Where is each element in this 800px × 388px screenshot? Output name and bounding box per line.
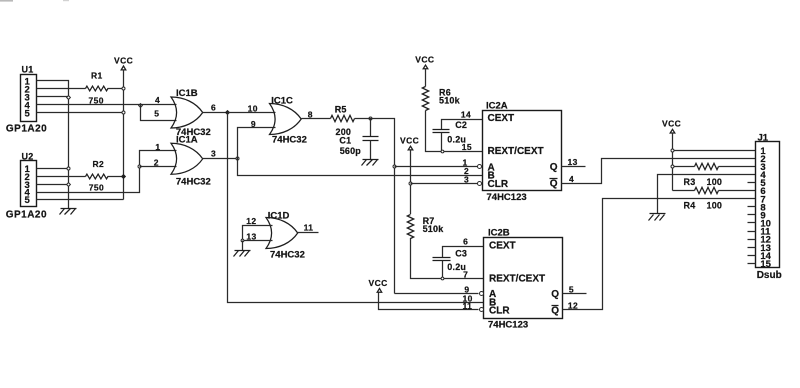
wire IC1D output 11 stub — [298, 232, 319, 234]
svg-text:Q: Q — [551, 289, 559, 300]
VCC symbol (J1) — [662, 119, 681, 133]
wire IC2A Qbar output 4 to J1 pin2 — [562, 159, 756, 184]
svg-text:1: 1 — [155, 142, 160, 152]
svg-text:R1: R1 — [91, 70, 103, 80]
svg-text:C2: C2 — [455, 120, 467, 130]
VCC symbol (CLR/R7 rail) — [400, 136, 419, 150]
wire J1 pin13 stub — [748, 247, 756, 249]
svg-text:12: 12 — [568, 301, 578, 311]
resistor R1 750 — [37, 70, 124, 105]
svg-text:4: 4 — [155, 95, 160, 105]
node R1/VCC junction — [122, 87, 125, 90]
svg-text:VCC: VCC — [662, 119, 681, 129]
wire J1 pin4 to ground — [658, 175, 756, 214]
svg-text:14: 14 — [461, 110, 471, 120]
wire IC1C input 10 from bus — [228, 112, 276, 114]
svg-text:5: 5 — [25, 195, 31, 206]
wire VCC rail down through R7 to IC2B pin7 — [411, 150, 484, 279]
wire U1 pin1 to ground bus — [37, 81, 69, 209]
svg-text:R4: R4 — [684, 201, 696, 211]
wire J1 pin8 stub — [748, 206, 756, 208]
svg-text:8: 8 — [308, 109, 313, 119]
GATES-SECTION — [154, 88, 484, 302]
svg-text:C3: C3 — [455, 248, 467, 258]
svg-text:GP1A20: GP1A20 — [6, 210, 47, 221]
svg-text:IC2B: IC2B — [488, 228, 510, 239]
VCC symbol (R6) — [415, 54, 434, 68]
wire IC1B output 6 — [203, 112, 228, 114]
VCC symbol (left rail) — [114, 56, 133, 70]
svg-text:750: 750 — [89, 95, 104, 105]
ground (left bus) — [60, 209, 77, 215]
wire IC1C output 8 to R5 — [302, 118, 331, 120]
svg-text:R5: R5 — [335, 105, 347, 115]
wire VCC rail down to R4 row — [672, 133, 674, 191]
wire IC1D input bracket — [243, 226, 273, 241]
svg-text:REXT/CEXT: REXT/CEXT — [489, 273, 545, 284]
resistor R4 100 to J1 pin6 — [673, 187, 756, 210]
resistor R7 510k — [407, 215, 444, 239]
svg-text:U2: U2 — [22, 151, 34, 161]
node IC1B.4 branch junction — [139, 104, 143, 108]
svg-text:510k: 510k — [423, 224, 445, 234]
svg-text:VCC: VCC — [400, 136, 419, 146]
wire U2 pin1 to bus — [37, 168, 69, 170]
svg-text:VCC: VCC — [114, 56, 133, 66]
svg-text:74HC123: 74HC123 — [488, 320, 528, 331]
svg-text:IC2A: IC2A — [486, 101, 508, 112]
or-gate IC1C (74HC32) — [248, 95, 307, 145]
svg-text:Q: Q — [550, 162, 558, 173]
pin bubble IC2B CLR — [480, 308, 484, 312]
resistor R5 200 — [331, 105, 370, 138]
node C2/pin15 junction — [441, 150, 444, 153]
capacitor C1 560p — [339, 119, 378, 160]
wire J1 pin15 stub — [748, 263, 756, 265]
VCC symbol (IC2B CLR) — [369, 278, 388, 292]
wire branch to IC1A input 2 — [140, 166, 177, 168]
svg-text:CEXT: CEXT — [489, 241, 516, 252]
connector U2 (GP1A20) — [6, 151, 47, 220]
wire to IC2B input A — [395, 293, 479, 295]
svg-text:5: 5 — [154, 109, 159, 119]
wire IC1A.3 up to IC1C input 9 — [238, 128, 276, 159]
ground (IC1D inputs) — [234, 251, 251, 257]
svg-text:5: 5 — [569, 284, 574, 294]
ground (J1 pin4) — [649, 214, 666, 221]
svg-text:100: 100 — [707, 201, 723, 211]
node R5/C1 junction — [369, 117, 372, 120]
wire VCC to IC2B CLR — [379, 293, 479, 310]
IC2A-SECTION — [461, 101, 756, 203]
svg-text:J1: J1 — [758, 132, 769, 143]
pin bubble IC2B A — [480, 292, 484, 296]
or-gate IC1D (74HC32) — [246, 211, 305, 261]
wire IC2B Q output 5 stub — [563, 293, 587, 295]
pin bubble IC2A CLR — [478, 182, 482, 186]
wire IC1A output 3 — [203, 158, 238, 160]
wire J1 pin10 stub — [748, 222, 756, 224]
svg-text:100: 100 — [707, 177, 723, 187]
wire U2 pin4 up to IC1A inputs — [37, 151, 177, 193]
svg-text:74HC123: 74HC123 — [487, 192, 527, 203]
node U2.3 bus diamond — [67, 183, 71, 187]
monostable IC2A (74HC123) — [483, 101, 562, 203]
wire U2 pin5 to VCC rail — [37, 199, 124, 201]
node U1.5/VCC junction — [122, 111, 125, 114]
svg-text:U1: U1 — [22, 65, 34, 75]
svg-text:12: 12 — [246, 216, 256, 226]
wire IC2B Qbar output 12 to J1 pin7 — [563, 199, 756, 310]
svg-text:R3: R3 — [684, 177, 696, 187]
MID-SECTION — [331, 54, 484, 309]
svg-text:GP1A20: GP1A20 — [6, 123, 47, 134]
wire U2 pin3 to bus — [37, 184, 69, 186]
LEFT-SECTION — [6, 56, 177, 221]
svg-text:13: 13 — [568, 157, 578, 167]
svg-text:CEXT: CEXT — [488, 113, 515, 124]
svg-text:6: 6 — [211, 103, 216, 113]
wire VCC left rail — [123, 70, 125, 200]
node VCC/J1.1 junction — [671, 149, 674, 152]
wire IC1D inputs to ground — [242, 241, 244, 251]
svg-text:R2: R2 — [93, 159, 105, 169]
svg-text:IC1D: IC1D — [268, 211, 290, 222]
svg-text:IC1B: IC1B — [176, 88, 198, 99]
svg-text:750: 750 — [89, 182, 104, 192]
wire U1 pin3 to bus — [37, 96, 69, 98]
wire J1 pin11 stub — [748, 231, 756, 233]
ground (C1) — [362, 160, 379, 166]
svg-text:Dsub: Dsub — [757, 270, 782, 281]
wire U1 pin5 to VCC rail — [37, 112, 124, 114]
node IC1D input ground junction — [241, 239, 244, 242]
wire IC1A.3 down to IC2A B — [238, 159, 483, 176]
svg-text:510k: 510k — [439, 96, 461, 106]
svg-text:Q: Q — [551, 305, 559, 316]
svg-text:4: 4 — [569, 174, 574, 184]
node VCC/R3 junction — [671, 165, 674, 168]
svg-text:9: 9 — [251, 119, 256, 129]
node U1.3 bus diamond — [67, 96, 71, 100]
svg-text:CLR: CLR — [488, 179, 509, 190]
wire R6 to IC2A pin 15 — [426, 111, 483, 152]
wire J1 pin5 stub — [748, 182, 756, 184]
wire VCC to J1 pin1 — [673, 150, 756, 152]
or-gate IC1A (74HC32) — [154, 135, 211, 188]
svg-text:560p: 560p — [340, 146, 362, 156]
wire IC2A Q output 13 stub — [562, 166, 586, 168]
capacitor C3 0.2u — [433, 247, 484, 279]
svg-text:5: 5 — [25, 109, 31, 120]
node U2.1 bus junction — [67, 167, 70, 170]
svg-text:15: 15 — [760, 259, 771, 270]
wire R5 node to A-line vertical — [370, 119, 395, 294]
svg-text:Q: Q — [550, 178, 558, 189]
wire VCC to IC2A CLR — [411, 183, 478, 185]
node VCC/CLR junction — [409, 182, 412, 185]
connector J1 (Dsub) — [756, 132, 782, 281]
svg-text:74HC32: 74HC32 — [270, 250, 305, 261]
svg-text:VCC: VCC — [369, 278, 388, 288]
wire J1 pin14 stub — [748, 255, 756, 257]
IC2B-SECTION — [463, 199, 756, 331]
monostable IC2B (74HC123) — [484, 228, 563, 331]
svg-text:2: 2 — [154, 158, 159, 168]
svg-text:7: 7 — [463, 269, 468, 279]
connector U1 (GP1A20) — [6, 65, 47, 135]
wire branch down to IC1B input 5 — [141, 105, 177, 121]
svg-text:CLR: CLR — [489, 306, 510, 317]
RIGHT-SECTION — [649, 119, 782, 281]
resistor R2 750 — [37, 159, 124, 192]
resistor R3 100 to J1 pin3 — [673, 163, 756, 187]
svg-text:VCC: VCC — [415, 54, 434, 64]
svg-text:10: 10 — [248, 103, 258, 113]
svg-text:REXT/CEXT: REXT/CEXT — [488, 146, 544, 157]
node IC1B.6 junction — [226, 111, 230, 115]
wire U1 pin4 to IC1B input 4 — [37, 104, 177, 106]
svg-text:15: 15 — [462, 142, 472, 152]
wire J1 pin9 stub — [748, 214, 756, 216]
resistor R6 510k — [422, 69, 460, 111]
svg-text:74HC32: 74HC32 — [176, 176, 211, 187]
svg-text:11: 11 — [463, 301, 473, 311]
svg-text:3: 3 — [464, 174, 469, 184]
node R2/VCC junction — [122, 175, 126, 179]
pin bubble IC2A A — [478, 165, 482, 169]
svg-text:IC1C: IC1C — [271, 95, 293, 106]
node IC1A.3 junction — [236, 157, 239, 160]
node C3/pin7 junction — [441, 277, 444, 280]
svg-text:74HC32: 74HC32 — [272, 135, 307, 146]
node A-line/IC2A.A junction — [393, 165, 396, 168]
capacitor C2 0.2u — [433, 120, 483, 152]
wire to IC2A input A — [395, 166, 478, 168]
or-gate IC1B (74HC32) — [154, 88, 210, 138]
svg-text:6: 6 — [463, 237, 468, 247]
svg-text:3: 3 — [211, 149, 216, 159]
svg-text:11: 11 — [304, 223, 314, 233]
node IC1A.2 branch junction — [138, 165, 141, 168]
wire IC1B.6 bus down to IC2B B — [228, 113, 484, 303]
wire J1 pin12 stub — [748, 239, 756, 241]
svg-text:IC1A: IC1A — [176, 135, 198, 146]
svg-text:C1: C1 — [339, 136, 351, 146]
